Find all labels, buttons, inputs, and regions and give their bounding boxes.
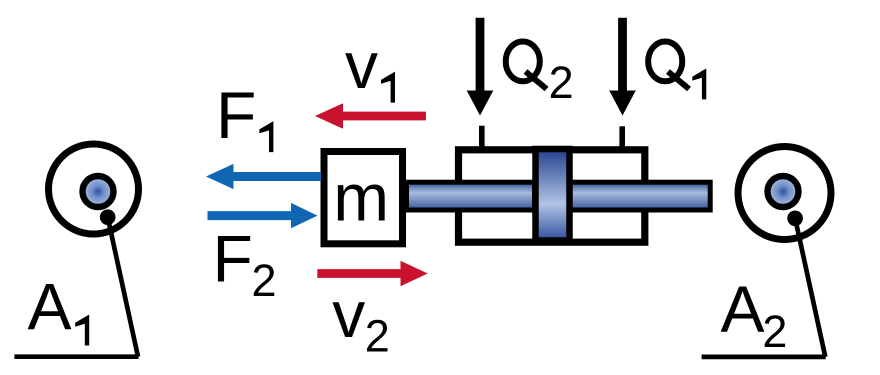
node A1 pivot: pin dot (100, 209, 116, 225)
node A1 pivot: outer circle (49, 144, 139, 234)
wire: A1 leader diagonal (108, 217, 138, 357)
svg-text:2: 2 (365, 311, 390, 362)
svg-text:F: F (216, 78, 256, 152)
svg-text:v: v (332, 277, 365, 351)
svg-text:v: v (345, 28, 378, 102)
node A2 pivot: outer circle (738, 147, 831, 240)
piston rod right segment (570, 182, 710, 210)
arrow F2 (blue, right) (208, 203, 318, 228)
wire: A1 baseline (14, 354, 138, 359)
svg-text:2: 2 (549, 57, 574, 108)
svg-text:A: A (28, 270, 72, 344)
node A2 pivot: pin dot (787, 211, 803, 227)
arrow Q2 (black, down) (467, 18, 494, 116)
arrow Q1 (black, down) (609, 18, 636, 116)
port Q2 stub (479, 126, 485, 150)
wire: A2 leader diagonal (795, 218, 825, 357)
arrow v1 (red, left) (315, 103, 426, 129)
cylinder body (459, 150, 645, 242)
piston rod left segment (407, 182, 535, 210)
svg-text:F: F (213, 222, 253, 296)
label Q2 (506, 42, 547, 90)
svg-text:2: 2 (762, 306, 787, 357)
svg-text:A: A (721, 272, 765, 346)
label Q1 (648, 42, 689, 90)
wire: A2 baseline (702, 355, 826, 360)
mass block m (324, 152, 403, 244)
port Q1 stub (619, 126, 625, 150)
node A1 pivot: inner hub (83, 176, 114, 207)
svg-text:m: m (333, 161, 389, 236)
arrow v2 (red, right) (317, 261, 427, 287)
piston (536, 149, 570, 241)
arrow F1 (blue, left) (206, 164, 321, 189)
node A2 pivot: inner hub (768, 176, 799, 207)
svg-text:2: 2 (252, 255, 277, 306)
